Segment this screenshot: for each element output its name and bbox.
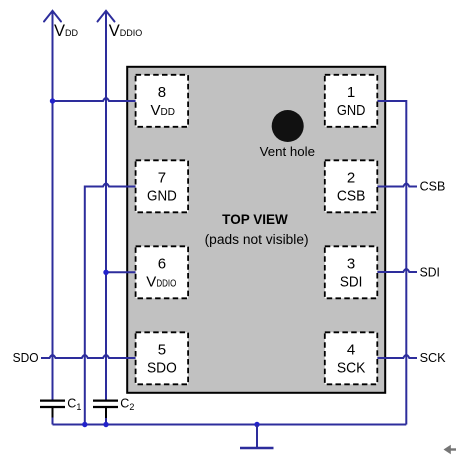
wire pad 1 GND to right rail	[377, 101, 406, 425]
node SDI	[420, 265, 440, 280]
node CSB	[420, 179, 446, 194]
pad 8 (VDD)	[136, 75, 189, 127]
svg-text:SDI: SDI	[340, 273, 363, 290]
junction C2 leg / ground rail	[103, 422, 108, 427]
svg-text:SDI: SDI	[420, 265, 440, 280]
label TOP VIEW	[205, 212, 309, 247]
junction VDDIO / pad-6 wire	[103, 270, 108, 275]
svg-text:7: 7	[158, 169, 166, 186]
svg-text:2: 2	[347, 169, 355, 186]
svg-text:GND: GND	[337, 102, 366, 119]
wire VDD rail below C1 to ground rail	[52, 418, 54, 425]
svg-text:TOP VIEW: TOP VIEW	[222, 212, 288, 227]
wire VDDIO to pad 6	[106, 271, 136, 273]
svg-text:CSB: CSB	[420, 179, 446, 194]
ground	[240, 425, 274, 449]
svg-text:VDDIO: VDDIO	[109, 22, 143, 40]
node VDD (supply arrow)	[44, 11, 79, 40]
junction VDD / pad-8 wire	[50, 98, 55, 103]
wire VDD to pad 8 (hops over VDDIO)	[53, 98, 136, 101]
capacitor C2	[93, 397, 134, 419]
svg-text:SCK: SCK	[420, 350, 446, 365]
svg-text:6: 6	[158, 255, 166, 272]
wire pad 4 SCK out (hops over right rail)	[377, 355, 417, 358]
pad 2 (CSB)	[325, 160, 378, 212]
wire VDD vertical rail	[52, 12, 54, 401]
wire pad 3 SDI out (hops over right rail)	[377, 269, 417, 272]
svg-text:C2: C2	[120, 397, 134, 413]
svg-text:(pads not visible): (pads not visible)	[205, 232, 309, 247]
capacitor C1	[40, 397, 81, 418]
svg-text:3: 3	[347, 255, 355, 272]
svg-text:5: 5	[158, 341, 166, 358]
node SDO	[13, 350, 39, 365]
pad 4 (SCK)	[325, 332, 378, 384]
svg-text:Vent hole: Vent hole	[260, 144, 315, 159]
vent hole	[260, 110, 315, 159]
pad 1 (GND)	[325, 75, 378, 127]
wire pad 2 CSB out (hops over right rail)	[377, 184, 417, 187]
wire VDDIO vertical rail	[105, 12, 107, 401]
node SCK	[420, 350, 446, 365]
pad 3 (SDI)	[325, 246, 378, 298]
node VDDIO (supply arrow)	[98, 11, 143, 40]
wire VDDIO rail below C2 to ground rail	[105, 418, 107, 425]
pad 7 (GND)	[136, 160, 189, 212]
svg-text:CSB: CSB	[337, 187, 366, 204]
wire bottom ground rail	[53, 424, 407, 426]
svg-text:SCK: SCK	[337, 359, 366, 376]
svg-text:8: 8	[158, 84, 166, 101]
svg-text:4: 4	[347, 341, 355, 358]
wire SDO to pad 5 (hops over three rails)	[41, 355, 136, 358]
svg-text:GND: GND	[147, 187, 177, 204]
junction GND branch / ground rail	[82, 422, 87, 427]
svg-text:1: 1	[347, 84, 355, 101]
svg-text:VDD: VDD	[54, 22, 79, 40]
pad 5 (SDO)	[136, 332, 189, 384]
svg-text:SDO: SDO	[13, 350, 39, 365]
svg-text:SDO: SDO	[147, 359, 177, 376]
cursor artifact bottom-right	[444, 445, 456, 455]
pad 6 (VDDIO)	[136, 246, 189, 298]
IC package body (TOP VIEW)	[127, 67, 385, 393]
svg-text:C1: C1	[67, 397, 81, 413]
junction ground symbol / ground rail	[254, 422, 259, 427]
wire pad 7 GND branch down to ground rail (hops over VDDIO)	[85, 184, 136, 425]
